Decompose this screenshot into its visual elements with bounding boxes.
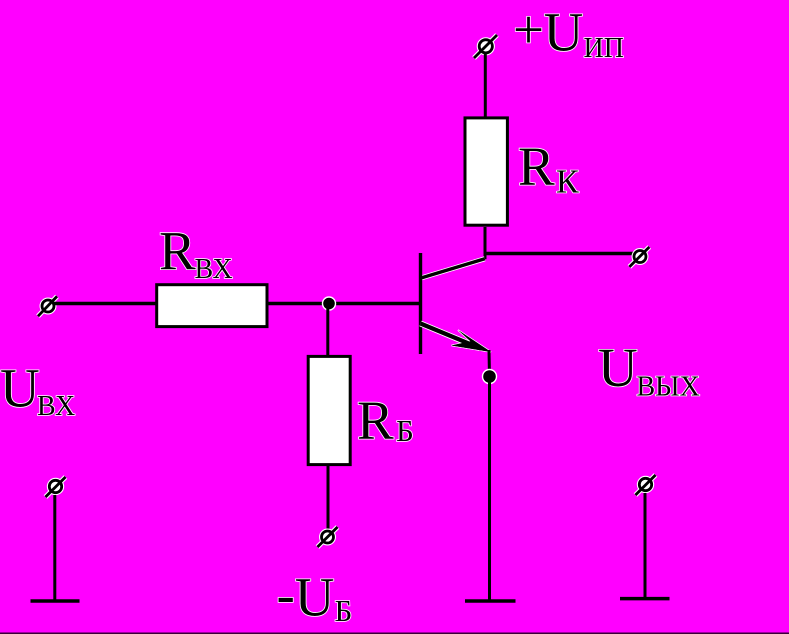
node emitter bbox=[483, 370, 497, 384]
wire: Rвх to base (through node) bbox=[269, 302, 420, 305]
terminal ref left bbox=[46, 477, 66, 497]
svg-text:Б: Б bbox=[396, 413, 414, 448]
svg-text:К: К bbox=[556, 164, 579, 201]
svg-text:U: U bbox=[598, 337, 638, 398]
wire: base node down to Rб bbox=[326, 304, 329, 357]
svg-text:ИП: ИП bbox=[584, 33, 624, 64]
ground emitter bbox=[465, 599, 516, 603]
svg-text:U: U bbox=[295, 567, 335, 628]
svg-text:+: + bbox=[513, 0, 544, 60]
svg-text:U: U bbox=[0, 358, 40, 419]
wire: emitter node to ground bbox=[488, 377, 491, 602]
terminal output bbox=[629, 247, 649, 267]
svg-text:ВХ: ВХ bbox=[195, 254, 233, 285]
resistor Rб bbox=[308, 356, 350, 464]
wire: emitter tip to node bbox=[488, 350, 492, 377]
bottom edge dark strip bbox=[0, 633, 789, 634]
ground left bbox=[31, 599, 80, 603]
terminal -Uб bbox=[318, 527, 338, 547]
svg-text:-: - bbox=[277, 564, 295, 625]
wire: right terminal to ground bbox=[644, 493, 647, 599]
svg-text:R: R bbox=[357, 390, 394, 451]
svg-text:Б: Б bbox=[335, 593, 353, 628]
svg-text:ВЫХ: ВЫХ bbox=[637, 371, 700, 402]
transistor VT emitter lead with arrow bbox=[421, 324, 492, 353]
terminal input bbox=[38, 296, 57, 316]
node base bbox=[323, 297, 336, 310]
resistor Rк bbox=[465, 118, 507, 225]
transistor VT collector lead bbox=[421, 259, 485, 278]
transistor VT base bar bbox=[419, 253, 422, 354]
ground right bbox=[620, 597, 670, 601]
svg-text:ВХ: ВХ bbox=[37, 391, 75, 422]
svg-text:R: R bbox=[518, 136, 555, 197]
wire: input terminal to Rвх bbox=[54, 302, 156, 305]
terminal +Uип bbox=[474, 35, 497, 58]
svg-text:U: U bbox=[544, 2, 584, 63]
svg-text:R: R bbox=[159, 221, 196, 282]
wire: Rк to collector junction bbox=[484, 227, 487, 259]
terminal ref right bbox=[636, 475, 656, 495]
wire: Rб to -Uб terminal bbox=[327, 466, 330, 530]
wire: left terminal to ground bbox=[53, 495, 56, 601]
wire: collector junction to output terminal bbox=[485, 252, 634, 255]
resistor Rвх bbox=[157, 285, 267, 327]
wire: supply terminal to Rк bbox=[484, 54, 487, 117]
